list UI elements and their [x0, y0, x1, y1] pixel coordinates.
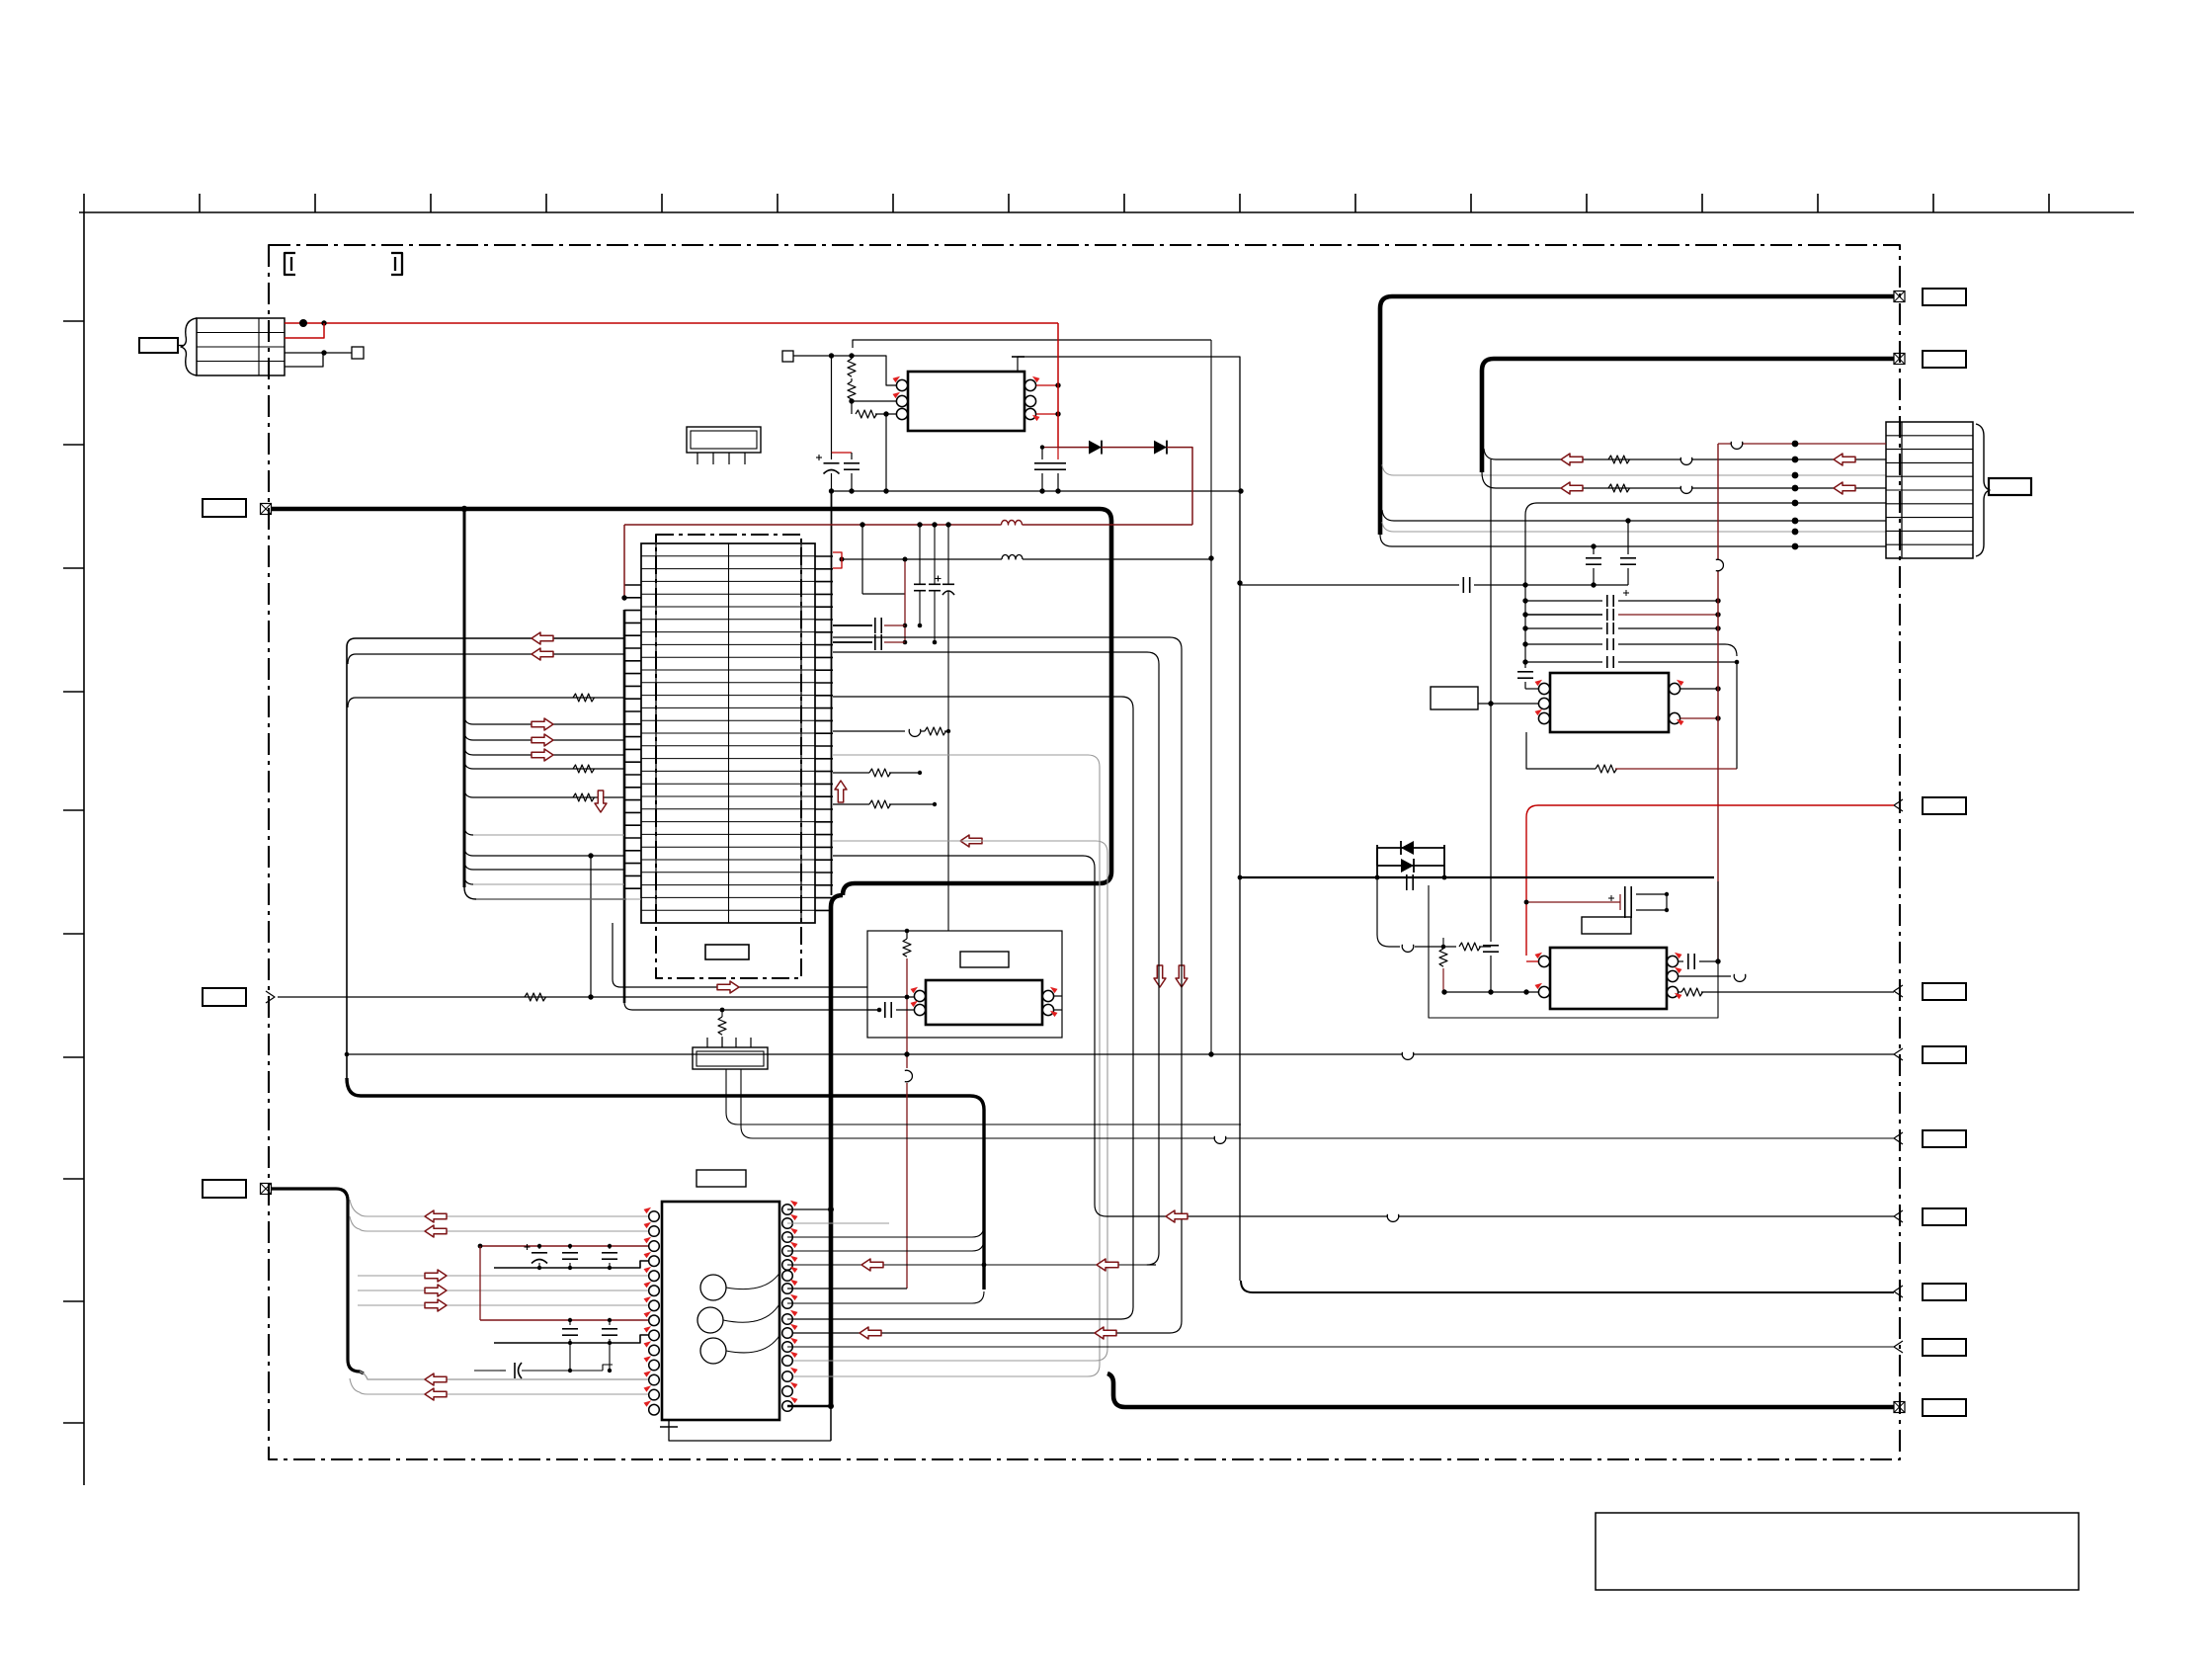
- thick wire T2: [1482, 359, 1894, 472]
- right terminal box R4: [1923, 983, 1966, 1000]
- gray wires U6 pins 1 2: [350, 1200, 648, 1216]
- hop x1739: [1716, 560, 1721, 570]
- hop y1152: [1215, 1136, 1225, 1141]
- capacitor C3: [1041, 448, 1043, 459]
- cap C18 on bus x1544: [1524, 664, 1526, 668]
- diode D1: [1058, 447, 1089, 449]
- ruler top line: [79, 211, 2134, 213]
- thick bus W1 left vertical x841: [831, 895, 843, 1406]
- row D cap C16: [1525, 643, 1602, 645]
- terminal arrow R5: [1894, 1048, 1903, 1060]
- U6 label box: [696, 1170, 746, 1187]
- gray rows U6 5-7: [358, 1275, 648, 1277]
- cap C20 on rail: [1406, 874, 1408, 890]
- wire U4 pin3R resistor to R4 terminal: [1679, 991, 1681, 993]
- motor M1 brace: [181, 318, 197, 375]
- arrows r4: [1561, 482, 1583, 494]
- wire y592 with cap C10: [1240, 584, 1459, 586]
- terminal X symbol R2: [1894, 354, 1905, 365]
- vertical x931 with cap C5: [919, 525, 921, 584]
- bus wire row764 to x1113: [787, 755, 1100, 1376]
- resistor R12 on P2 line: [525, 993, 545, 1001]
- capacitor C1 electrolytic: [824, 462, 840, 464]
- main board dash-dot border: [269, 245, 1900, 1459]
- resistor rows right of IC A: [833, 730, 905, 732]
- signal arrow up x851: [835, 781, 847, 802]
- IC A left pin bus: [623, 610, 626, 1003]
- U6 pins right: [782, 1205, 793, 1215]
- vertical x946 with cap C6: [934, 525, 936, 584]
- hop r1: [1732, 442, 1742, 447]
- IC A bottom connector CN4: [693, 1047, 768, 1069]
- bus x1544 down: [1524, 579, 1526, 664]
- wire U6 pin to red bus x918: [787, 1288, 907, 1290]
- red jog: [832, 452, 853, 454]
- terminal arrow R4: [1894, 985, 1903, 997]
- right terminal box R3: [1923, 797, 1966, 814]
- arrows U6 left rows: [425, 1210, 447, 1222]
- ruler left line: [83, 212, 85, 1485]
- wire y1022 from IC A bus to U5 pin2: [624, 1002, 880, 1010]
- U2 pins right: [1024, 379, 1035, 390]
- arrows y1349: [860, 1327, 881, 1339]
- ecap C30 row10: [474, 1370, 500, 1372]
- wire y565 from U2 area: [842, 558, 1002, 560]
- right terminal box R6: [1923, 1130, 1966, 1147]
- rail y497: [832, 490, 1242, 492]
- terminal arrow R8: [1894, 1286, 1903, 1297]
- red wire to R3 terminal: [1526, 805, 1894, 956]
- cap cluster 2: [569, 1320, 571, 1325]
- ruler top ticks: [83, 194, 85, 212]
- wire y958 hop resistor: [1377, 877, 1400, 947]
- IC A top label connector CN3: [687, 427, 761, 453]
- vertical x873 link: [861, 525, 863, 594]
- resistor R2 vertical: [848, 381, 856, 399]
- U4 outer loop: [1429, 881, 1718, 1018]
- signal arrows down x1174 x1196: [1154, 965, 1166, 987]
- U4 pins right: [1667, 956, 1678, 966]
- terminal arrow P2: [266, 991, 275, 1003]
- left terminal box P3: [203, 1180, 246, 1198]
- hop r2: [1681, 458, 1691, 462]
- terminal arrow R3: [1894, 799, 1903, 811]
- vertical x1509 from CN2 r2: [1490, 459, 1492, 942]
- resistor R3 to U2 pin3: [856, 410, 876, 418]
- caps above U4: [1526, 901, 1620, 903]
- IC A row lines: [641, 555, 815, 557]
- row A cap C13: [1525, 600, 1602, 602]
- red vertical from motor x1071: [1057, 323, 1059, 448]
- wire motor pin2 red: [285, 323, 324, 338]
- junction dot row 866: [588, 853, 593, 858]
- U5 outer box: [867, 931, 1062, 1038]
- junction dot W1 V1: [461, 506, 467, 512]
- thick rail y888: [1240, 876, 1714, 878]
- row C cap C15: [1525, 627, 1602, 629]
- IC A body: [641, 543, 815, 923]
- signal arrow y1231: [1166, 1210, 1188, 1222]
- wire U5 pins right: [1054, 995, 1062, 997]
- U2 top power bar: [1012, 356, 1024, 358]
- wire y601: [862, 593, 905, 595]
- right terminal box R5: [1923, 1046, 1966, 1063]
- cap C21 x1509: [1483, 945, 1499, 947]
- wires U6 pins to bus x996: [787, 1225, 984, 1237]
- dark red wire to x1207: [1167, 448, 1192, 525]
- bus wire row705 to x1147: [787, 697, 1133, 1319]
- dark red drop x918: [906, 958, 908, 1068]
- U6 transistor arcs: [726, 1272, 780, 1290]
- U6 ground return wire: [669, 1433, 831, 1441]
- vertical x1226: [1210, 340, 1212, 1054]
- red rail row3 U6: [480, 1245, 648, 1247]
- motor M1 shaft tab: [139, 338, 178, 353]
- CN2 rows wires: [1718, 443, 1886, 445]
- U3 pins right: [1669, 683, 1679, 694]
- inductor L2 on y565: [1002, 555, 1023, 560]
- wire U4 pin1R cap C22: [1679, 960, 1683, 962]
- resistor R10 row 778: [573, 765, 594, 773]
- bus wire row851 to x1121: [787, 841, 1107, 1361]
- U3 pins left: [1538, 683, 1549, 694]
- U6 pin15R thick stub: [787, 1405, 831, 1408]
- wires from bus V1 to IC A rows: [473, 723, 624, 725]
- wire U2 right pin3 red: [1036, 413, 1058, 415]
- signal arrows rows 733 749 764: [532, 718, 553, 730]
- wire U4 pin2R hop: [1679, 975, 1731, 977]
- wire U3 pin3R red: [1680, 717, 1718, 719]
- row B cap C14 red right: [1525, 614, 1602, 616]
- red vertical x916: [904, 558, 906, 642]
- terminal X symbol R10: [1894, 1402, 1905, 1413]
- wire U2 top to x1255: [1018, 357, 1240, 1281]
- red link U2R pins: [833, 552, 842, 568]
- terminal arrow R7: [1894, 1210, 1903, 1222]
- resistor R1 vertical: [848, 359, 856, 376]
- vertical x897 to rail 497: [885, 414, 887, 491]
- wire U3 pin1: [1525, 688, 1538, 690]
- wire U5 pin2L cap C23: [867, 1009, 880, 1011]
- bus wire row866 to x1108: [833, 856, 1894, 1216]
- dark red bus x1739: [1717, 444, 1719, 961]
- op-amp U3 body: [1550, 673, 1669, 732]
- right terminal box R1: [1923, 289, 1966, 305]
- rail y1152 to R6 terminal: [741, 1069, 1894, 1138]
- cap C12: [1627, 521, 1629, 554]
- left terminal box P1: [203, 499, 246, 517]
- hop y1067: [1403, 1052, 1413, 1057]
- rail y1359: [494, 1335, 648, 1343]
- IC A right pin stubs: [815, 555, 833, 557]
- signal arrow down x608: [595, 790, 607, 812]
- wire x841 lower to ground rail: [830, 1406, 832, 1441]
- thick bus W2: [347, 1078, 984, 1290]
- U4 label box: [1582, 917, 1631, 934]
- feedback resistor R21: [1526, 732, 1596, 769]
- red rail row8 U6: [480, 1319, 648, 1321]
- wire motor pin4: [285, 353, 323, 367]
- vertical link x598: [590, 856, 592, 997]
- thick bus W1 from P1: [272, 509, 1111, 895]
- T1 branch row3: [1382, 464, 1886, 475]
- test point square TP1: [352, 347, 364, 359]
- T2 branch row2: [1484, 449, 1886, 459]
- resistor R20 r2: [1608, 456, 1630, 463]
- capacitor C4: [1057, 448, 1059, 459]
- bus V2 vertical x351: [347, 638, 624, 1080]
- terminal X symbol R1: [1894, 291, 1905, 302]
- U6 ground: [668, 1420, 670, 1433]
- wire motor pin1 red to node V line: [285, 322, 1058, 324]
- rail y1283: [494, 1261, 648, 1268]
- row y633 with cap C8: [833, 624, 872, 626]
- test point square TP2: [782, 351, 793, 362]
- IC A bottom label box: [705, 945, 749, 959]
- wire y1280 arrow: [787, 1264, 1147, 1266]
- connector CN2 body: [1886, 422, 1973, 558]
- gray wire U6 pin14: [350, 1378, 648, 1394]
- connector CN2 label box: [1989, 478, 2031, 495]
- U2 pins left: [896, 379, 907, 390]
- IC_A right pin bus x842 upper: [831, 491, 833, 895]
- thick wire to R10 terminal: [1107, 1373, 1894, 1407]
- terminal arrow R6: [1894, 1132, 1903, 1144]
- title block: [1596, 1513, 2079, 1590]
- right terminal box R9: [1923, 1339, 1966, 1356]
- wire U6 pin to bus bottom: [787, 1291, 984, 1303]
- wire U4 pin2 line: [1444, 991, 1538, 993]
- CN2 r4 wire resistor: [1608, 484, 1630, 492]
- terminal arrow R9: [1894, 1341, 1903, 1353]
- T2 tail row4: [1482, 472, 1886, 488]
- U5 label box: [960, 952, 1009, 967]
- wire P2 line y1009: [278, 996, 914, 998]
- U5 pins left: [914, 990, 925, 1001]
- terminal X symbol P3: [261, 1184, 272, 1195]
- signal arrows rows 646 662: [532, 632, 553, 644]
- junction U5 pin1 red bus: [905, 995, 910, 1000]
- board name bracket left: [285, 253, 295, 275]
- T1 branch row6: [1382, 510, 1886, 521]
- wire U3 pin1R: [1680, 688, 1718, 690]
- bus wire row660 to x1173: [833, 652, 1159, 1265]
- long rail y1067: [347, 1053, 1894, 1055]
- cap C11: [1593, 546, 1595, 554]
- row y650 with cap C9: [833, 641, 872, 643]
- wire TP2 to U2 pin1: [793, 356, 897, 385]
- right terminal box R7: [1923, 1208, 1966, 1225]
- wire motor pin3 to test point: [285, 352, 352, 354]
- hop r4: [1681, 486, 1691, 491]
- wire U6 pin row 1363 to R9 terminal: [787, 1346, 1894, 1348]
- row 910 stub: [476, 898, 641, 900]
- wire U6 pin row 1335 stub: [787, 1318, 1121, 1320]
- red rail y531 with inductor L1: [624, 524, 1002, 526]
- board name bracket right: [391, 253, 402, 275]
- row E cap C17: [1525, 661, 1602, 663]
- IC A left pin stubs: [624, 584, 641, 586]
- red drop to IC A pin: [623, 525, 625, 598]
- vertical red feed x486: [479, 1246, 481, 1320]
- wire y999 with arrow: [613, 923, 867, 987]
- op-amp U4 body: [1550, 948, 1667, 1009]
- wire U4 pin1 red: [1526, 960, 1538, 962]
- U4 pins left: [1538, 956, 1549, 966]
- right terminal box R8: [1923, 1284, 1966, 1300]
- wire U6 pin1R: [787, 1208, 831, 1210]
- right terminal box R10: [1923, 1399, 1966, 1416]
- terminal X symbol P1: [261, 504, 272, 515]
- junction dots on red rail: [860, 522, 864, 527]
- vertical x1462: [1442, 938, 1444, 947]
- wire U2 right pin1 red: [1036, 384, 1058, 386]
- right terminal box R2: [1923, 351, 1966, 368]
- resistor R25 top: [906, 931, 908, 939]
- wire to U2 pin2: [852, 400, 897, 402]
- wire U6 pin2R gray: [787, 1222, 889, 1224]
- T1 tail to connector row8: [1380, 535, 1886, 546]
- signal arrow left y851: [960, 835, 982, 847]
- CN2 dots column: [1792, 441, 1799, 448]
- vertical x960 with cap C7: [947, 525, 949, 584]
- IC A dash-dot outline: [656, 535, 801, 978]
- wire x841 cap leg: [831, 356, 833, 453]
- arrows r2: [1561, 454, 1583, 465]
- rail y1138: [726, 1069, 1241, 1124]
- T1 branch row7: [1382, 522, 1886, 532]
- bus V1 vertical: [463, 509, 466, 887]
- bus wire row645 to x1196: [787, 637, 1182, 1333]
- diode pair D3 D4: [1377, 848, 1444, 866]
- junction dot motor red: [299, 319, 307, 327]
- U5 pins right: [1042, 990, 1053, 1001]
- hop on y1231: [1388, 1214, 1398, 1219]
- wire U3 pin2 from label: [1478, 703, 1538, 705]
- wire IC A pin row 706 with resistor: [348, 698, 624, 707]
- U6 pins left: [649, 1211, 660, 1222]
- U3 label box: [1431, 687, 1478, 709]
- op-amp U5 body: [926, 980, 1042, 1025]
- connector CN2 brace: [1976, 424, 1990, 556]
- thick wire T1: [1380, 296, 1894, 535]
- U6 transistor circles: [700, 1275, 726, 1300]
- cap cluster 1: [538, 1246, 540, 1249]
- op-amp U2 body: [908, 372, 1024, 431]
- wire IC A pin row 662: [348, 654, 624, 664]
- diode D2: [1102, 447, 1154, 449]
- wire y1308 from x1256 to R8 terminal: [1241, 1281, 1894, 1292]
- resistor R30 above CN4: [721, 1010, 723, 1017]
- capacitor C2: [844, 462, 860, 464]
- left terminal box P2: [203, 988, 246, 1006]
- resistor R11 row 807: [573, 793, 594, 801]
- P3 thick wire: [272, 1189, 364, 1373]
- IC U6 body: [662, 1202, 779, 1420]
- CN2 r5 wire: [1525, 503, 1886, 579]
- red cap top link: [1042, 447, 1058, 449]
- ruler left ticks: [63, 320, 84, 322]
- wire top rail y344: [853, 340, 1211, 348]
- motor M1 body: [197, 318, 285, 375]
